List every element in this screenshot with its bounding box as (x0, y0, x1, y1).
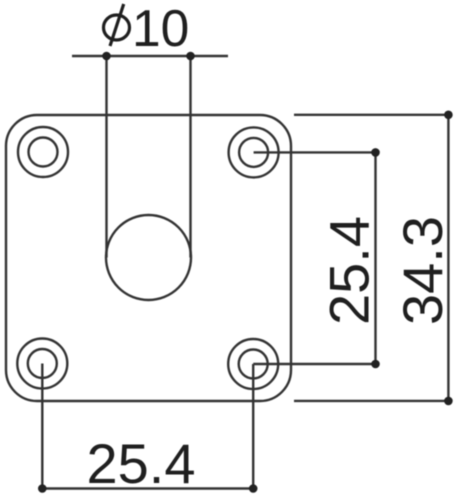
dim 25.4 right ext bottom (253, 363, 376, 365)
dim phi10 ext right (189, 56, 191, 258)
screw hole top-left outer (18, 127, 68, 177)
screw hole bottom-right inner (239, 350, 268, 379)
dot 25.4 right top (371, 148, 380, 157)
screw hole bottom-left inner (28, 349, 57, 378)
center jack hole (106, 215, 191, 300)
dot 34.3 bottom (444, 397, 453, 406)
dim phi10 line (72, 55, 228, 57)
dot 25.4 right bottom (371, 360, 380, 369)
label phi symbol (104, 4, 130, 46)
dim 25.4 bottom ext left (41, 364, 43, 489)
dim 25.4 right ext top (254, 151, 376, 153)
dot 25.4 bottom left (38, 484, 47, 493)
dim 34.3 line (447, 115, 449, 401)
screw hole bottom-left outer (17, 339, 67, 389)
svg-text:10: 10 (132, 0, 189, 57)
screw hole bottom-right outer (228, 339, 278, 389)
plate outline (6, 115, 291, 401)
dot phi10 left (102, 52, 111, 61)
dim 25.4 right line (374, 152, 376, 364)
dim 25.4 bottom ext right (252, 364, 254, 489)
dim 34.3 ext bottom (294, 400, 449, 402)
screw hole top-right inner (239, 138, 268, 167)
dot 25.4 bottom right (249, 484, 258, 493)
dim 25.4 bottom line (42, 487, 253, 489)
svg-text:25.4: 25.4 (87, 432, 196, 495)
dim phi10 ext left (105, 56, 107, 258)
screw hole top-right outer (229, 127, 279, 177)
svg-text:25.4: 25.4 (318, 216, 381, 325)
dot phi10 right (186, 52, 195, 61)
screw hole top-left inner (29, 138, 58, 167)
dim 34.3 ext top (294, 114, 449, 116)
dot 34.3 top (444, 111, 453, 120)
svg-text:34.3: 34.3 (391, 216, 454, 325)
